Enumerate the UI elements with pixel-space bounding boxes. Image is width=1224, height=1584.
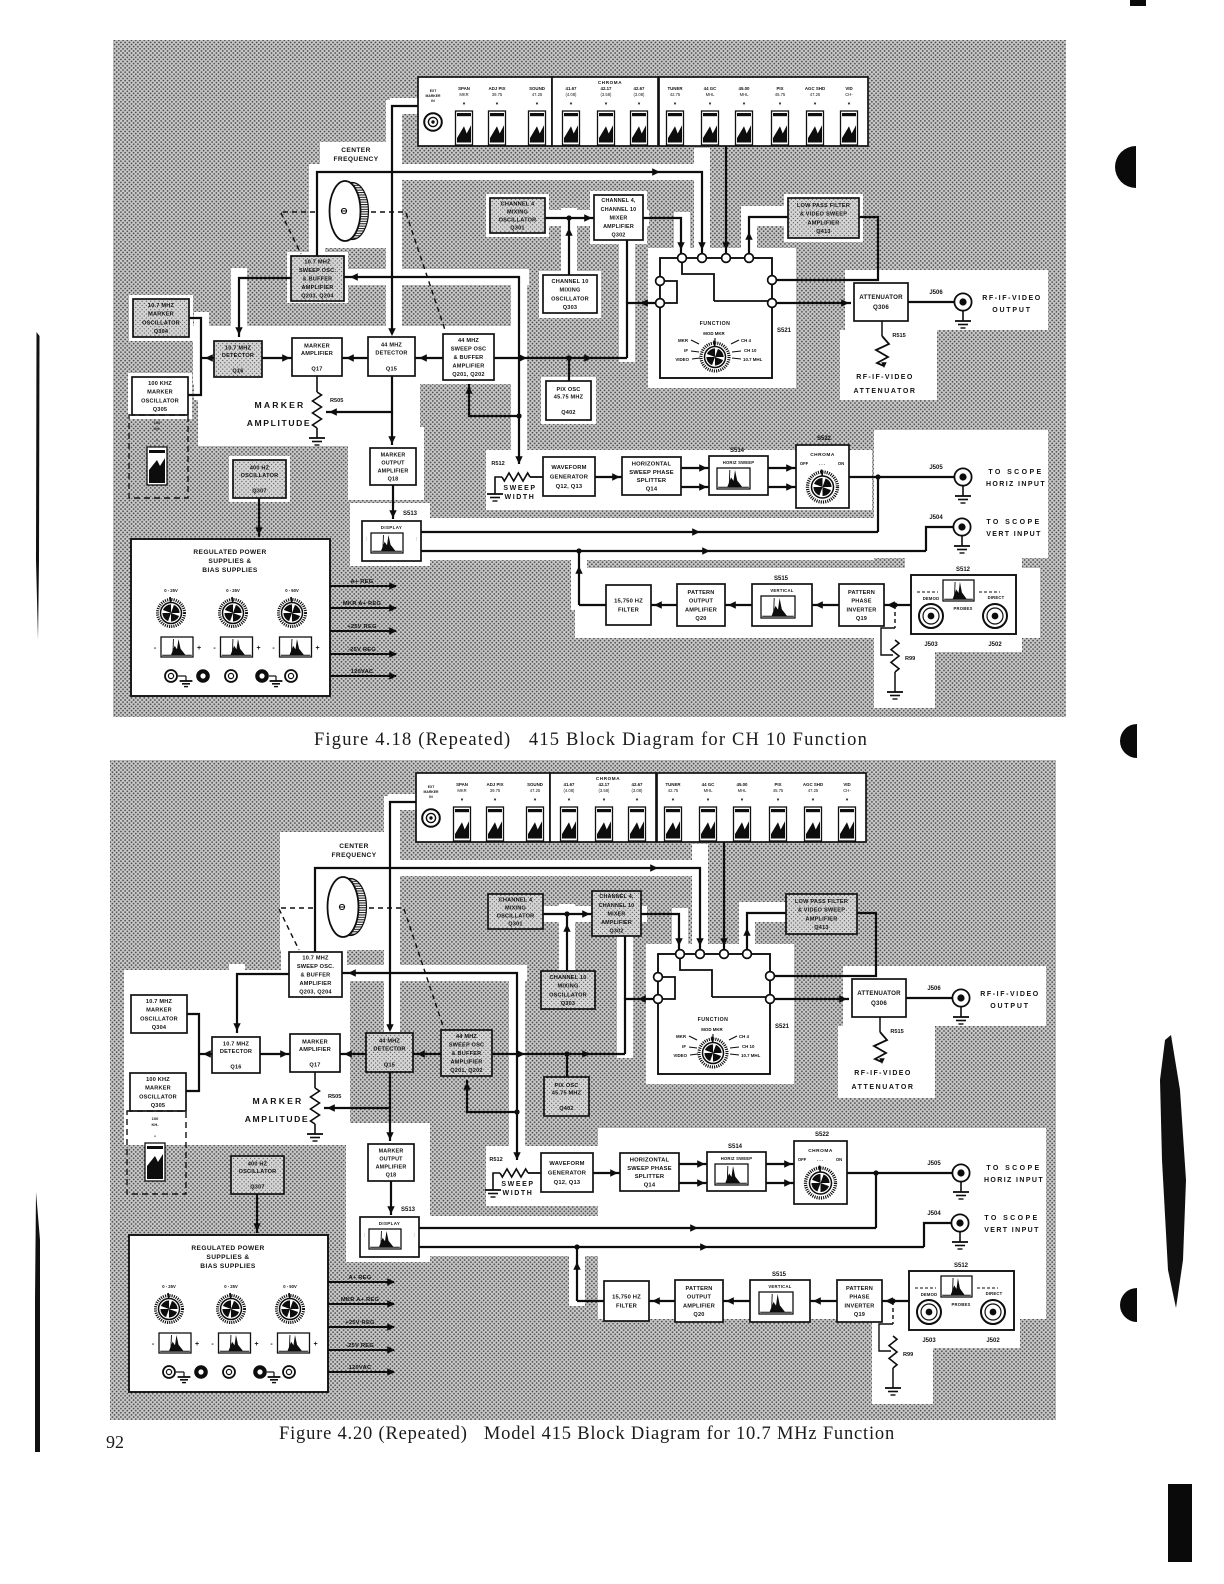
- svg-text:S513: S513: [401, 1207, 416, 1213]
- svg-text:J503: J503: [922, 1338, 936, 1344]
- svg-text:CH-: CH-: [843, 788, 851, 793]
- resistor R505 marker amplitude pot: [314, 1072, 316, 1088]
- svg-text:+25V REG: +25V REG: [347, 624, 377, 630]
- svg-text:OUTPUT: OUTPUT: [687, 1295, 712, 1301]
- svg-text:DEMOD: DEMOD: [923, 596, 940, 601]
- connector J505: [954, 468, 971, 485]
- svg-text:42.75: 42.75: [668, 788, 679, 793]
- svg-text:IN: IN: [429, 795, 433, 799]
- svg-text:(4.08): (4.08): [566, 92, 578, 97]
- svg-text:45.75: 45.75: [773, 788, 784, 793]
- svg-text:CHANNEL 4: CHANNEL 4: [501, 201, 535, 207]
- svg-text:PIX: PIX: [774, 782, 781, 787]
- svg-text:FILTER: FILTER: [616, 1304, 638, 1310]
- svg-text:ON: ON: [836, 1157, 842, 1162]
- svg-text:AMPLIFIER: AMPLIFIER: [301, 351, 333, 357]
- oscillator block CHANNEL 4 MIXING OSCILLATOR: [488, 894, 543, 929]
- svg-text:PROBES: PROBES: [952, 1302, 971, 1307]
- wire waveform generator to splitter: [593, 1172, 620, 1174]
- switch S521 FUNCTION box: [660, 258, 772, 378]
- svg-text:J502: J502: [988, 642, 1002, 648]
- svg-text:BIAS SUPPLIES: BIAS SUPPLIES: [200, 1263, 256, 1270]
- wire display vertical line: [421, 550, 926, 552]
- wire display horizontal line: [419, 1227, 876, 1229]
- svg-text:Q17: Q17: [311, 367, 322, 373]
- svg-text:SWEEP OSC: SWEEP OSC: [449, 1042, 485, 1048]
- svg-text:ATTENUATOR: ATTENUATOR: [851, 1084, 914, 1091]
- svg-text:OSCILLATOR: OSCILLATOR: [239, 1169, 277, 1175]
- svg-text:R505: R505: [330, 398, 343, 404]
- svg-text:Q16: Q16: [230, 1064, 241, 1070]
- svg-text:....: ....: [363, 1233, 367, 1237]
- svg-text:FUNCTION: FUNCTION: [698, 1017, 729, 1023]
- dashed detail box 100 KH marker: [127, 1111, 186, 1194]
- amplifier block MARKER AMPLIFIER Q17: [292, 338, 342, 376]
- connector J503: [919, 604, 943, 628]
- resistor R505 marker amplitude pot: [316, 376, 318, 392]
- svg-text:100: 100: [154, 420, 161, 425]
- svg-text:TUNER: TUNER: [667, 86, 683, 91]
- oscillator block 100 KHZ MARKER OSCILLATOR Q305: [130, 1073, 186, 1111]
- svg-text:10.7 MHZ: 10.7 MHZ: [146, 999, 173, 1005]
- svg-text:RF-IF-VIDEO: RF-IF-VIDEO: [856, 374, 913, 381]
- wire output +25V REG: [330, 630, 396, 632]
- detector block 44 MHZ DETECTOR Q15: [366, 1033, 413, 1072]
- filter block 15750 HZ FILTER: [606, 585, 651, 625]
- svg-text:42.75: 42.75: [670, 92, 681, 97]
- svg-text:Q402: Q402: [559, 1106, 573, 1112]
- wire output -25V REG: [328, 1349, 394, 1351]
- svg-text:Q20: Q20: [693, 1312, 704, 1318]
- wire center frequency line to function switch: [317, 172, 702, 256]
- svg-text:KH-: KH-: [151, 1122, 159, 1127]
- wire 10.7 detector to marker amplifier: [262, 357, 292, 359]
- svg-text:DIRECT: DIRECT: [988, 595, 1005, 600]
- svg-text:MARKER: MARKER: [379, 1148, 404, 1154]
- svg-text:MKR A+ REG: MKR A+ REG: [341, 1297, 380, 1303]
- ground R99: [885, 1387, 901, 1389]
- figure 4.18 halftone panel: [113, 40, 1066, 717]
- amplifier block MARKER OUTPUT AMPLIFIER Q18: [368, 1144, 414, 1181]
- svg-text:+: +: [195, 1341, 199, 1348]
- svg-text:Q19: Q19: [856, 616, 867, 622]
- svg-text:Q203, Q204: Q203, Q204: [299, 989, 332, 995]
- svg-text:100 KHZ: 100 KHZ: [146, 1077, 170, 1083]
- oscillator block 400 HZ OSCILLATOR Q307: [231, 1156, 284, 1194]
- svg-text:SPAN: SPAN: [458, 86, 470, 91]
- front panel section 3: [659, 77, 868, 146]
- svg-text:-25V REG: -25V REG: [346, 1343, 374, 1349]
- svg-text:J505: J505: [929, 465, 943, 471]
- wire Q302 bottom: [626, 240, 628, 303]
- svg-text:AMPLIFIER: AMPLIFIER: [378, 468, 409, 474]
- svg-text:J506: J506: [929, 290, 943, 296]
- wire output +25V REG: [328, 1326, 394, 1328]
- ground J505: [962, 486, 964, 496]
- svg-text:MARKER: MARKER: [146, 1008, 172, 1014]
- svg-text:TO SCOPE: TO SCOPE: [984, 1215, 1039, 1222]
- svg-text:39.75: 39.75: [490, 788, 501, 793]
- detector block 10.7 MHZ DETECTOR Q16: [212, 1037, 260, 1073]
- wire ext marker to 44MHz detector: [392, 106, 418, 334]
- svg-text:S521: S521: [777, 328, 792, 334]
- svg-text:MHL: MHL: [738, 788, 748, 793]
- svg-text:R515: R515: [890, 1029, 903, 1035]
- svg-text:SUPPLIES &: SUPPLIES &: [206, 1254, 249, 1261]
- ground J504: [959, 1232, 961, 1242]
- oscillator block 10.7 MHZ MARKER OSCILLATOR Q304: [133, 299, 189, 337]
- svg-text:Q203, Q204: Q203, Q204: [301, 293, 334, 299]
- wire filter riser: [576, 1247, 578, 1301]
- svg-text:MARKER: MARKER: [255, 400, 306, 410]
- svg-text:MIXING: MIXING: [559, 288, 580, 294]
- power supply box REGULATED POWER SUPPLIES: [129, 1235, 328, 1392]
- svg-text:Figure 4.18 (Repeated) 415 B: Figure 4.18 (Repeated) 415 Block Diagram…: [314, 730, 868, 750]
- wire 44MHz sweep feedback: [467, 1080, 517, 1112]
- svg-text:MOD MKR: MOD MKR: [701, 1027, 723, 1032]
- wire pattern chain: [579, 604, 606, 606]
- wire marker oscillators bus: [186, 1014, 199, 1091]
- amplifier block PATTERN OUTPUT AMPLIFIER Q20: [675, 1280, 723, 1322]
- filter block LOW PASS FILTER VIDEO SWEEP AMPLIFIER: [788, 198, 859, 238]
- wire S522 to J505: [849, 476, 955, 478]
- svg-text:R515: R515: [892, 333, 905, 339]
- wire marker amplifier to 44MHz detector: [340, 1053, 366, 1055]
- scan artifact right streak: [1160, 1035, 1186, 1308]
- svg-text:AGC SHD: AGC SHD: [803, 782, 823, 787]
- scan artifact right half disc 2: [1120, 724, 1137, 758]
- svg-text:& VIDEO SWEEP: & VIDEO SWEEP: [798, 908, 845, 914]
- attenuator block ATTENUATOR Q306: [852, 979, 906, 1017]
- scan artifact left streak 1: [36, 332, 40, 640]
- svg-text:CHANNEL 10: CHANNEL 10: [601, 207, 637, 213]
- svg-text:OSCILLATOR: OSCILLATOR: [139, 1094, 177, 1100]
- svg-text:AMPLIFIER: AMPLIFIER: [685, 607, 717, 613]
- node S521 right contacts: [768, 276, 777, 285]
- wire center frequency line to function switch: [315, 868, 700, 952]
- svg-text:Q302: Q302: [612, 233, 626, 239]
- svg-text:44 GC: 44 GC: [704, 86, 718, 91]
- svg-text:Q301: Q301: [510, 225, 524, 231]
- svg-text:MARKER: MARKER: [148, 312, 174, 318]
- connector J502: [983, 604, 1007, 628]
- svg-text:MIXING: MIXING: [505, 905, 526, 911]
- svg-text:WIDTH: WIDTH: [503, 1190, 534, 1197]
- svg-text:MIXING: MIXING: [557, 984, 578, 990]
- svg-text:& VIDEO SWEEP: & VIDEO SWEEP: [800, 212, 847, 218]
- power binding posts: [165, 670, 177, 682]
- svg-text:KH-: KH-: [153, 426, 161, 431]
- svg-text:Q16: Q16: [232, 368, 243, 374]
- svg-text:MKR: MKR: [457, 788, 466, 793]
- wire waveform generator to splitter: [595, 476, 622, 478]
- svg-text:Q307: Q307: [250, 1185, 264, 1191]
- svg-text:10.7 MHZ: 10.7 MHZ: [302, 956, 329, 962]
- svg-text:AGC SHD: AGC SHD: [805, 86, 825, 91]
- svg-text:J504: J504: [929, 515, 943, 521]
- node S521 left contacts: [654, 973, 663, 982]
- svg-text:J503: J503: [924, 642, 938, 648]
- svg-text:MARKER: MARKER: [302, 1039, 328, 1045]
- svg-text:Q305: Q305: [151, 1103, 165, 1109]
- wire splitter to S514: [681, 467, 709, 469]
- amplifier block MARKER OUTPUT AMPLIFIER Q18: [370, 448, 416, 485]
- svg-text:(4.08): (4.08): [564, 788, 576, 793]
- svg-text:(3.58): (3.58): [601, 92, 613, 97]
- front panel section 1: [418, 77, 552, 146]
- svg-text:MKR: MKR: [678, 338, 689, 343]
- svg-text:....: ....: [413, 1233, 417, 1237]
- svg-text:VERT INPUT: VERT INPUT: [986, 531, 1042, 538]
- svg-text:47.25: 47.25: [810, 92, 821, 97]
- svg-text:SOUND: SOUND: [529, 86, 545, 91]
- connector J502: [981, 1300, 1005, 1324]
- svg-text:AMPLITUDE: AMPLITUDE: [247, 418, 312, 428]
- svg-text:Q413: Q413: [816, 229, 830, 235]
- svg-text:HORIZONTAL: HORIZONTAL: [630, 1158, 670, 1164]
- wire 400Hz oscillator to power supply: [258, 498, 260, 537]
- scan artifact top right mark: [1130, 0, 1146, 6]
- svg-text:AMPLIFIER: AMPLIFIER: [300, 981, 332, 987]
- svg-text:MHL: MHL: [706, 92, 716, 97]
- svg-text:CH 10: CH 10: [742, 1044, 755, 1049]
- wire function switch to attenuator: [772, 302, 851, 304]
- svg-text:Q304: Q304: [154, 329, 169, 335]
- svg-text:WIDTH: WIDTH: [505, 494, 536, 501]
- svg-text:MKR A+ REG: MKR A+ REG: [343, 601, 382, 607]
- ground J504: [961, 536, 963, 546]
- oscillator block PIX OSC 45.75 MHZ Q402: [544, 1077, 589, 1116]
- svg-text:10.7 MHZ: 10.7 MHZ: [223, 1042, 250, 1048]
- inverter block PATTERN PHASE INVERTER Q19: [837, 1280, 882, 1322]
- svg-text:Q20: Q20: [695, 616, 706, 622]
- svg-text:WAVEFORM: WAVEFORM: [549, 1161, 584, 1167]
- svg-text:LOW PASS FILTER: LOW PASS FILTER: [797, 203, 850, 209]
- generator block WAVEFORM GENERATOR Q12 Q13: [543, 457, 595, 496]
- svg-text:OSCILLATOR: OSCILLATOR: [140, 1016, 178, 1022]
- oscillator block CHANNEL 10 MIXING OSCILLATOR Q303: [543, 275, 597, 313]
- svg-text:Q18: Q18: [386, 1172, 397, 1178]
- svg-text:S512: S512: [954, 1263, 969, 1269]
- wire output A+ REG: [328, 1281, 394, 1283]
- wire filter riser: [578, 551, 580, 605]
- oscillator block 10.7 MHZ SWEEP OSC: [289, 952, 342, 997]
- svg-text:AMPLIFIER: AMPLIFIER: [808, 220, 840, 226]
- svg-text:PROBES: PROBES: [954, 606, 973, 611]
- scan artifact right half disc 3: [1120, 1288, 1137, 1322]
- power binding posts: [163, 1366, 175, 1378]
- svg-text:CH 4: CH 4: [739, 1034, 750, 1039]
- svg-text:- - -: - - -: [819, 461, 826, 466]
- wire sweep osc feedback line: [344, 277, 519, 464]
- svg-text:CHROMA: CHROMA: [598, 80, 622, 85]
- svg-text:EXT: EXT: [428, 785, 436, 789]
- front panel section 3: [657, 773, 866, 842]
- wire marker amplifier to 44MHz detector: [342, 357, 368, 359]
- svg-text:S521: S521: [775, 1024, 790, 1030]
- svg-text:PHASE: PHASE: [851, 599, 871, 605]
- svg-text:OSCILLATOR: OSCILLATOR: [499, 217, 537, 223]
- svg-text:& BUFFER: & BUFFER: [301, 972, 331, 978]
- svg-text:+: +: [256, 645, 260, 652]
- svg-text:120VAC: 120VAC: [351, 669, 374, 675]
- wire 44MHz detector to sweep osc: [413, 1053, 441, 1055]
- ground R99: [887, 691, 903, 693]
- amplifier block PATTERN OUTPUT AMPLIFIER Q20: [677, 584, 725, 626]
- node S521 left contacts: [656, 277, 665, 286]
- svg-text:Q14: Q14: [644, 1182, 656, 1188]
- svg-text:Q15: Q15: [386, 366, 397, 372]
- svg-text:Q14: Q14: [646, 486, 658, 492]
- svg-text:HORIZ SWEEP: HORIZ SWEEP: [723, 460, 755, 465]
- svg-text:DIRECT: DIRECT: [986, 1291, 1003, 1296]
- svg-text:CHANNEL 10: CHANNEL 10: [549, 975, 586, 981]
- svg-text:ATTENUATOR: ATTENUATOR: [859, 294, 903, 301]
- svg-text:45.75 MHZ: 45.75 MHZ: [554, 395, 584, 401]
- wire 44MHz detector to sweep osc: [415, 357, 443, 359]
- svg-text:Q17: Q17: [309, 1063, 320, 1069]
- wire output MKR A+ REG: [330, 607, 396, 609]
- svg-text:A+ REG: A+ REG: [351, 579, 374, 585]
- svg-text:AMPLIFIER: AMPLIFIER: [299, 1047, 331, 1053]
- svg-text:+: +: [313, 1341, 317, 1348]
- svg-text:44 MHZ: 44 MHZ: [456, 1034, 477, 1040]
- svg-text:SWEEP OSC.: SWEEP OSC.: [299, 268, 337, 274]
- svg-text:42.67: 42.67: [634, 86, 646, 91]
- svg-text:IF: IF: [682, 1044, 686, 1049]
- connector J505: [952, 1164, 969, 1181]
- svg-text:CH 4: CH 4: [741, 338, 752, 343]
- svg-text:ATTENUATOR: ATTENUATOR: [857, 990, 901, 997]
- power supply box REGULATED POWER SUPPLIES: [131, 539, 330, 696]
- resistor R515: [881, 321, 883, 336]
- svg-text:45.00: 45.00: [739, 86, 751, 91]
- svg-text:SWEEP PHASE: SWEEP PHASE: [627, 1166, 672, 1172]
- svg-text:Q306: Q306: [873, 304, 889, 311]
- svg-text:TO SCOPE: TO SCOPE: [986, 1165, 1041, 1172]
- svg-text:S513: S513: [403, 511, 418, 517]
- wire sweep osc feedback line: [342, 973, 517, 1160]
- svg-text:CHANNEL 10: CHANNEL 10: [551, 279, 588, 285]
- svg-text:AMPLIFIER: AMPLIFIER: [453, 364, 485, 370]
- svg-text:PIX OSC: PIX OSC: [554, 1083, 578, 1089]
- filter block 15750 HZ FILTER: [604, 1281, 649, 1321]
- detector block 44 MHZ DETECTOR Q15: [368, 337, 415, 376]
- wire display horizontal line: [421, 531, 878, 533]
- ground R505: [307, 1133, 323, 1135]
- ground J506: [960, 1007, 962, 1017]
- svg-text:MIXING: MIXING: [507, 209, 528, 215]
- svg-text:15,750 HZ: 15,750 HZ: [612, 1295, 641, 1301]
- svg-text:R505: R505: [328, 1094, 341, 1100]
- svg-text:ATTENUATOR: ATTENUATOR: [853, 388, 916, 395]
- svg-text:A+ REG: A+ REG: [349, 1275, 372, 1281]
- scan artifact right half disc 1: [1115, 146, 1136, 188]
- resistor R515: [879, 1017, 881, 1032]
- wire output -25V REG: [330, 653, 396, 655]
- wire pix osc riser: [566, 1054, 568, 1077]
- wire S522 to display line: [877, 477, 879, 532]
- svg-text:10.7 MHL: 10.7 MHL: [741, 1053, 761, 1058]
- svg-text:FUNCTION: FUNCTION: [700, 321, 731, 327]
- svg-text:+: +: [254, 1341, 258, 1348]
- ground power post 1: [176, 1371, 184, 1373]
- figure 4.20 halftone panel: [110, 760, 1056, 1420]
- svg-text:+: +: [197, 645, 201, 652]
- svg-text:AMPLIFIER: AMPLIFIER: [376, 1164, 407, 1170]
- svg-text:& BUFFER: & BUFFER: [454, 355, 484, 361]
- svg-text:LOW PASS FILTER: LOW PASS FILTER: [795, 899, 848, 905]
- svg-text:Q306: Q306: [871, 1000, 887, 1007]
- svg-text:SPLITTER: SPLITTER: [637, 478, 667, 484]
- wire splitter to S514: [679, 1163, 707, 1165]
- svg-text:400 HZ: 400 HZ: [248, 1161, 268, 1167]
- svg-text:47.25: 47.25: [808, 788, 819, 793]
- svg-text:15,750 HZ: 15,750 HZ: [614, 599, 643, 605]
- svg-text:(3.08): (3.08): [632, 788, 644, 793]
- svg-text:OFF: OFF: [800, 461, 809, 466]
- svg-text:- - -: - - -: [817, 1157, 824, 1162]
- svg-text:10.7 MHL: 10.7 MHL: [743, 357, 763, 362]
- svg-text:....: ....: [365, 537, 369, 541]
- svg-text:Q15: Q15: [384, 1062, 395, 1068]
- ground J506: [962, 311, 964, 321]
- wire sweep osc to 10.7 detector: [237, 974, 289, 1033]
- connector J504: [951, 1214, 968, 1231]
- svg-text:OUTPUT: OUTPUT: [381, 460, 405, 466]
- svg-text:120VAC: 120VAC: [349, 1365, 372, 1371]
- front panel section 2 CHROMA: [552, 77, 658, 146]
- node S521 top contacts: [678, 254, 687, 263]
- svg-text:MOD MKR: MOD MKR: [703, 331, 725, 336]
- svg-text:DISPLAY: DISPLAY: [381, 525, 402, 530]
- svg-text:●: ●: [154, 1134, 156, 1138]
- connector J504: [953, 518, 970, 535]
- svg-text:Q301: Q301: [508, 921, 522, 927]
- svg-text:J504: J504: [927, 1211, 941, 1217]
- svg-text:41.67: 41.67: [564, 782, 576, 787]
- svg-text:SPLITTER: SPLITTER: [635, 1174, 665, 1180]
- svg-text:SPAN: SPAN: [456, 782, 468, 787]
- svg-text:DEMOD: DEMOD: [921, 1292, 938, 1297]
- amplifier block CHANNEL 4 CHANNEL 10 MIXER AMPLIFIER Q302: [592, 891, 641, 936]
- connector J503: [917, 1300, 941, 1324]
- svg-text:MARKER: MARKER: [145, 1086, 171, 1092]
- svg-text:10.7 MHZ: 10.7 MHZ: [304, 260, 331, 266]
- svg-text:PATTERN: PATTERN: [846, 1286, 873, 1292]
- node S521 right contacts: [766, 972, 775, 981]
- oscillator block 10.7 MHZ MARKER OSCILLATOR Q304: [131, 995, 187, 1033]
- svg-text:SWEEP: SWEEP: [501, 1181, 534, 1188]
- wire marker output amplifier to display switch: [390, 1181, 392, 1215]
- oscillator block 44 MHZ SWEEP OSC Q201 Q202: [441, 1030, 492, 1076]
- wire channel10 osc riser: [568, 218, 570, 275]
- wire pattern chain: [577, 1300, 604, 1302]
- wire function switch to low pass filter: [747, 913, 786, 950]
- svg-text:TO SCOPE: TO SCOPE: [988, 469, 1043, 476]
- svg-text:& BUFFER: & BUFFER: [452, 1051, 482, 1057]
- svg-text:Q303: Q303: [563, 305, 577, 311]
- svg-text:HORIZONTAL: HORIZONTAL: [632, 462, 672, 468]
- splitter block HORIZONTAL SWEEP PHASE SPLITTER Q14: [622, 457, 681, 495]
- svg-text:VID: VID: [845, 86, 852, 91]
- svg-text:OUTPUT: OUTPUT: [379, 1156, 403, 1162]
- svg-text:Q413: Q413: [814, 925, 828, 931]
- svg-text:J502: J502: [986, 1338, 1000, 1344]
- svg-text:REGULATED POWER: REGULATED POWER: [191, 1245, 264, 1252]
- svg-text:44 GC: 44 GC: [702, 782, 716, 787]
- svg-text:MARKER: MARKER: [253, 1096, 304, 1106]
